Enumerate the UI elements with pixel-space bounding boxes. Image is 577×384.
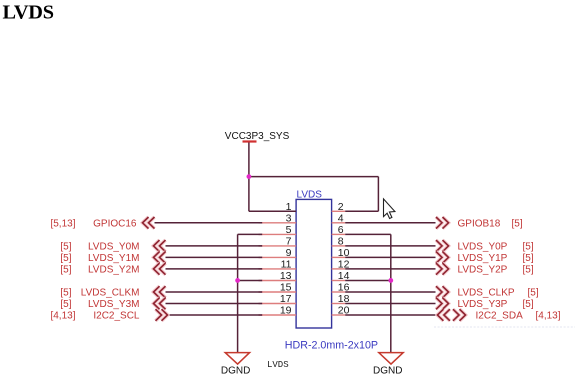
pin 20 stub (332, 314, 346, 316)
port LVDS_Y2P output chevrons (436, 263, 449, 275)
wire pin 20 to port I2C2_SDA (345, 314, 436, 316)
svg-text:9: 9 (286, 247, 292, 259)
pin 13 stub (262, 280, 296, 282)
wire port LVDS_CLKM to pin 15 (166, 291, 263, 293)
ground symbol DGND left (225, 353, 249, 365)
svg-text:3: 3 (286, 212, 292, 224)
port I2C2_SDA bidir left chevrons (437, 309, 450, 321)
svg-text:[5]: [5] (523, 299, 534, 310)
svg-text:LVDS_Y3M: LVDS_Y3M (88, 299, 140, 310)
wire right DGND vertical (390, 234, 392, 352)
svg-text:13: 13 (280, 270, 292, 282)
wire pin 10 to port LVDS_Y1P (345, 256, 435, 258)
svg-text:LVDS_Y2M: LVDS_Y2M (88, 264, 140, 275)
wire pin 4 to port GPIOB18 (345, 222, 435, 224)
svg-text:[5]: [5] (523, 264, 534, 275)
wire VCC right vertical to pin 2 row (377, 177, 379, 212)
svg-text:[5,13]: [5,13] (50, 218, 75, 229)
port LVDS_Y0P output chevrons (436, 240, 449, 252)
wire pin 5 to left DGND (238, 233, 262, 235)
pin 14 stub (332, 280, 346, 282)
pin 15 stub (262, 291, 296, 293)
svg-text:LVDS_Y0M: LVDS_Y0M (88, 241, 140, 252)
svg-text:[5]: [5] (60, 241, 71, 252)
svg-text:LVDS_Y3P: LVDS_Y3P (458, 299, 508, 310)
pin 8 stub (332, 245, 346, 247)
svg-text:LVDS_Y2P: LVDS_Y2P (458, 264, 508, 275)
wire pin 12 to port LVDS_Y2P (345, 268, 435, 270)
wire VCC vertical to pin 1 row (248, 143, 250, 212)
junction left DGND pin 13 (235, 278, 240, 283)
power symbol VCC3P3_SYS (243, 140, 257, 142)
faint artifact line (434, 326, 575, 328)
wire pin 8 to port LVDS_Y0P (345, 245, 435, 247)
wire pin 16 to port LVDS_CLKP (345, 291, 435, 293)
ground symbol DGND right (379, 353, 403, 365)
wire port I2C2_SCL to pin 19 (168, 314, 263, 316)
svg-text:17: 17 (280, 293, 292, 305)
mouse cursor (384, 199, 395, 219)
port GPIOC16 input chevrons (143, 217, 155, 229)
wire pin 14 to right DGND (345, 279, 391, 281)
svg-text:LVDS_Y0P: LVDS_Y0P (458, 241, 508, 252)
svg-text:DGND: DGND (221, 366, 250, 377)
svg-text:[5]: [5] (512, 218, 523, 229)
connector J1 LVDS HDR-2.0mm-2x10P body (296, 199, 332, 328)
junction right DGND pin 14 (388, 278, 393, 283)
pin 18 stub (332, 303, 346, 305)
port GPIOB18 output chevrons (436, 217, 449, 229)
wire port LVDS_Y3M to pin 17 (166, 303, 263, 305)
wire port LVDS_Y2M to pin 11 (166, 268, 263, 270)
wire port LVDS_Y1M to pin 9 (166, 256, 263, 258)
svg-text:8: 8 (338, 236, 344, 248)
svg-text:19: 19 (280, 305, 292, 317)
svg-text:GPIOB18: GPIOB18 (458, 218, 501, 229)
port LVDS_CLKP output chevrons (436, 286, 449, 298)
svg-text:1: 1 (286, 201, 292, 213)
pin 5 stub (262, 233, 296, 235)
pin 2 stub (332, 210, 346, 212)
svg-text:LVDS_Y1P: LVDS_Y1P (458, 253, 508, 264)
port LVDS_Y3M input chevrons (154, 298, 166, 310)
port LVDS_Y1P output chevrons (436, 252, 449, 264)
svg-text:4: 4 (338, 212, 344, 224)
svg-text:5: 5 (286, 224, 292, 236)
port LVDS_Y3P output chevrons (436, 298, 449, 310)
svg-text:LVDS_CLKP: LVDS_CLKP (458, 288, 515, 299)
wire pin 2 to VCC riser (345, 210, 378, 212)
wire port LVDS_Y0M to pin 7 (166, 245, 263, 247)
svg-text:[4,13]: [4,13] (536, 311, 561, 322)
pin 17 stub (262, 303, 296, 305)
svg-text:GPIOC16: GPIOC16 (93, 218, 137, 229)
svg-text:2: 2 (338, 201, 344, 213)
pin 3 stub (262, 222, 296, 224)
svg-text:VCC3P3_SYS: VCC3P3_SYS (225, 131, 290, 142)
svg-text:I2C2_SCL: I2C2_SCL (93, 311, 140, 322)
port LVDS_Y1M input chevrons (154, 252, 166, 264)
svg-text:LVDS: LVDS (3, 2, 54, 24)
svg-text:[5]: [5] (528, 288, 539, 299)
port LVDS_CLKM input chevrons (154, 286, 166, 298)
pin 1 stub (wire overlapped) (249, 210, 296, 212)
wire left DGND vertical (237, 234, 239, 352)
svg-text:[5]: [5] (523, 241, 534, 252)
svg-text:I2C2_SDA: I2C2_SDA (476, 311, 524, 322)
wire pin 18 to port LVDS_Y3P (345, 303, 435, 305)
svg-text:HDR-2.0mm-2x10P: HDR-2.0mm-2x10P (285, 340, 378, 352)
pin 10 stub (332, 256, 346, 258)
pin 19 stub (262, 314, 296, 316)
svg-text:15: 15 (280, 282, 292, 294)
svg-text:LVDS_Y1M: LVDS_Y1M (88, 253, 140, 264)
pin 16 stub (332, 291, 346, 293)
pin 9 stub (262, 256, 296, 258)
svg-text:7: 7 (286, 236, 292, 248)
svg-text:DGND: DGND (373, 366, 402, 377)
svg-text:[5]: [5] (60, 253, 71, 264)
svg-text:11: 11 (281, 259, 292, 271)
svg-text:[5]: [5] (60, 264, 71, 275)
wire pin 13 to left DGND (238, 279, 262, 281)
svg-text:[5]: [5] (60, 288, 71, 299)
wire VCC horizontal top (249, 176, 379, 178)
svg-text:LVDS: LVDS (297, 189, 323, 200)
port I2C2_SDA bidir right chevrons (453, 309, 466, 321)
svg-text:[5]: [5] (60, 299, 71, 310)
pin 12 stub (332, 268, 346, 270)
pin 6 stub (332, 233, 346, 235)
pin 4 stub (332, 222, 346, 224)
pin 11 stub (262, 268, 296, 270)
port LVDS_Y0M input chevrons (154, 240, 166, 252)
port I2C2_SCL output chevrons (156, 309, 168, 321)
svg-text:LVDS_CLKM: LVDS_CLKM (81, 288, 140, 299)
svg-text:[4,13]: [4,13] (50, 311, 75, 322)
port LVDS_Y2M input chevrons (154, 263, 166, 275)
pin 7 stub (262, 245, 296, 247)
wire port GPIOC16 to pin 3 (155, 222, 263, 224)
svg-text:6: 6 (338, 224, 344, 236)
wire pin 6 to right DGND (345, 233, 391, 235)
svg-text:LVDS: LVDS (267, 360, 289, 370)
svg-text:[5]: [5] (523, 253, 534, 264)
junction VCC node (247, 174, 252, 179)
